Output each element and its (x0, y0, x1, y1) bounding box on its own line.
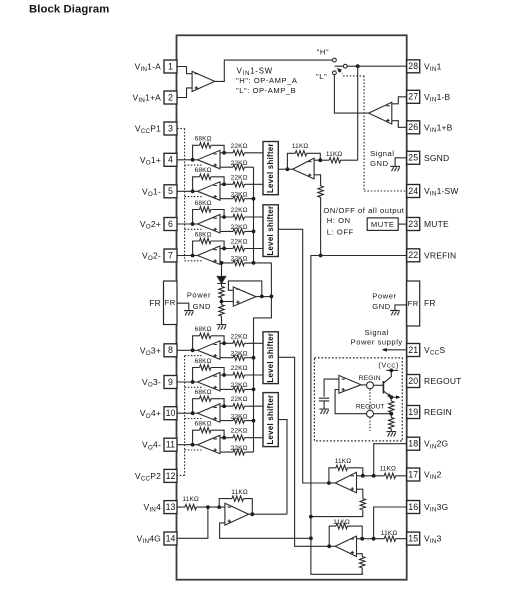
svg-text:6: 6 (168, 219, 173, 229)
svg-text:"H": OP-AMP_A: "H": OP-AMP_A (236, 76, 298, 85)
svg-text:VO1-: VO1- (142, 186, 161, 198)
svg-text:27: 27 (408, 92, 418, 102)
svg-text:11KΩ: 11KΩ (231, 489, 248, 496)
svg-text:9: 9 (168, 377, 173, 387)
svg-text:28: 28 (408, 61, 418, 71)
svg-text:VIN2G: VIN2G (424, 439, 448, 451)
svg-text:17: 17 (408, 469, 418, 479)
svg-text:VREFIN: VREFIN (424, 250, 456, 260)
svg-text:FR: FR (424, 298, 436, 308)
svg-text:11KΩ: 11KΩ (326, 151, 343, 158)
svg-text:REGIN: REGIN (359, 375, 381, 382)
svg-text:15: 15 (408, 534, 418, 544)
svg-text:11KΩ: 11KΩ (380, 466, 397, 473)
svg-text:Level shifter: Level shifter (266, 143, 275, 193)
svg-text:GND: GND (370, 159, 389, 168)
svg-text:11KΩ: 11KΩ (335, 458, 352, 465)
svg-text:11KΩ: 11KΩ (292, 143, 309, 150)
svg-text:21: 21 (408, 345, 418, 355)
svg-text:VIN1-B: VIN1-B (424, 92, 451, 104)
svg-text:16: 16 (408, 502, 418, 512)
svg-text:MUTE: MUTE (371, 220, 395, 229)
svg-text:Signal: Signal (364, 328, 388, 337)
svg-text:VO3-: VO3- (142, 377, 161, 389)
svg-text:Power supply: Power supply (351, 338, 403, 347)
svg-text:20: 20 (408, 376, 418, 386)
svg-text:(VCC): (VCC) (378, 360, 399, 369)
svg-text:18: 18 (408, 439, 418, 449)
svg-text:11KΩ: 11KΩ (182, 496, 199, 503)
svg-text:VIN1-A: VIN1-A (135, 62, 162, 74)
svg-text:14: 14 (166, 533, 176, 543)
svg-text:Power: Power (372, 292, 396, 301)
svg-text:VIN1: VIN1 (424, 61, 442, 73)
svg-text:Level shifter: Level shifter (266, 206, 275, 256)
svg-text:5: 5 (168, 186, 173, 196)
svg-text:VCCS: VCCS (424, 345, 445, 357)
svg-text:VO3+: VO3+ (140, 345, 161, 357)
svg-text:VIN1+B: VIN1+B (424, 122, 453, 134)
svg-text:VIN1-SW: VIN1-SW (424, 186, 459, 198)
svg-text:GND: GND (372, 302, 391, 311)
svg-text:ON/OFF of all output: ON/OFF of all output (323, 206, 404, 215)
svg-text:Signal: Signal (370, 149, 394, 158)
svg-text:REGOUT: REGOUT (424, 376, 462, 386)
svg-text:7: 7 (168, 250, 173, 260)
svg-text:24: 24 (408, 186, 418, 196)
svg-text:19: 19 (408, 407, 418, 417)
svg-text:VO2+: VO2+ (140, 219, 161, 231)
svg-text:VIN3: VIN3 (424, 534, 442, 546)
svg-text:3: 3 (168, 123, 173, 133)
svg-text:25: 25 (408, 153, 418, 163)
svg-text:Level shifter: Level shifter (266, 333, 275, 383)
svg-text:1: 1 (168, 61, 173, 71)
svg-text:10: 10 (166, 408, 176, 418)
svg-text:MUTE: MUTE (424, 219, 449, 229)
svg-text:11: 11 (166, 440, 175, 450)
svg-text:22: 22 (408, 250, 418, 260)
svg-text:23: 23 (408, 219, 418, 229)
svg-text:8: 8 (168, 345, 173, 355)
svg-text:VIN1+A: VIN1+A (132, 93, 161, 105)
svg-text:FR: FR (149, 298, 161, 308)
svg-text:13: 13 (166, 502, 176, 512)
svg-text:GND: GND (193, 302, 212, 311)
svg-text:H: ON: H: ON (327, 216, 351, 225)
svg-text:VCCP2: VCCP2 (135, 471, 161, 483)
svg-text:Level shifter: Level shifter (266, 395, 275, 445)
svg-text:VO4+: VO4+ (140, 408, 161, 420)
svg-text:L: OFF: L: OFF (327, 227, 354, 236)
svg-text:VO2-: VO2- (142, 251, 161, 263)
svg-text:2: 2 (168, 92, 173, 102)
svg-text:VCCP1: VCCP1 (135, 124, 161, 136)
svg-text:FR: FR (165, 298, 176, 307)
svg-text:26: 26 (408, 122, 418, 132)
svg-text:VIN4: VIN4 (143, 502, 161, 514)
svg-text:VO4-: VO4- (142, 440, 161, 452)
svg-text:"L": "L" (316, 72, 327, 81)
svg-text:11KΩ: 11KΩ (333, 519, 350, 526)
svg-text:4: 4 (168, 155, 173, 165)
svg-text:"H": "H" (317, 47, 330, 56)
svg-text:VIN3G: VIN3G (424, 502, 448, 514)
svg-text:REGIN: REGIN (424, 407, 452, 417)
svg-text:SGND: SGND (424, 153, 449, 163)
svg-text:11KΩ: 11KΩ (381, 530, 398, 537)
svg-text:VIN2: VIN2 (424, 470, 442, 482)
svg-text:VO1+: VO1+ (140, 155, 161, 167)
svg-text:Block Diagram: Block Diagram (29, 3, 109, 15)
svg-text:Power: Power (187, 291, 211, 300)
svg-text:FR: FR (408, 299, 419, 308)
svg-text:"L": OP-AMP_B: "L": OP-AMP_B (236, 86, 296, 95)
svg-text:REGOUT: REGOUT (356, 403, 385, 410)
svg-text:VIN4G: VIN4G (137, 534, 161, 546)
svg-text:12: 12 (166, 471, 176, 481)
